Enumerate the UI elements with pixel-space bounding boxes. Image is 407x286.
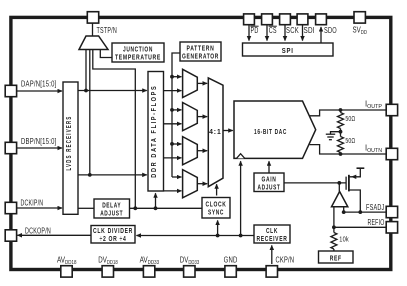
svg-text:TSTP/N: TSTP/N — [97, 26, 118, 35]
svg-text:RECEIVER: RECEIVER — [257, 234, 288, 243]
svg-text:16-BIT DAC: 16-BIT DAC — [254, 127, 287, 136]
svg-text:50Ω: 50Ω — [345, 136, 355, 145]
svg-text:SCK: SCK — [286, 26, 299, 35]
svg-text:4:1: 4:1 — [209, 127, 222, 136]
svg-text:LVDS RECEIVERS: LVDS RECEIVERS — [64, 116, 73, 171]
svg-text:÷2 OR ÷4: ÷2 OR ÷4 — [100, 234, 127, 243]
svg-text:GENERATOR: GENERATOR — [182, 52, 219, 61]
svg-text:SDO: SDO — [324, 26, 337, 35]
svg-text:PD: PD — [251, 26, 259, 35]
svg-text:DAP/N[15:0]: DAP/N[15:0] — [21, 80, 57, 89]
svg-text:FSADJ: FSADJ — [366, 203, 385, 212]
svg-text:SPI: SPI — [282, 46, 294, 55]
svg-text:10k: 10k — [339, 235, 349, 244]
svg-text:SYNC: SYNC — [208, 208, 224, 217]
svg-text:GND: GND — [224, 255, 238, 264]
svg-text:DCKIP/N: DCKIP/N — [21, 198, 44, 207]
svg-text:ADJUST: ADJUST — [100, 209, 123, 218]
svg-text:50Ω: 50Ω — [345, 114, 355, 123]
svg-text:SDI: SDI — [304, 26, 315, 35]
svg-text:DBP/N[15:0]: DBP/N[15:0] — [21, 137, 57, 146]
svg-text:CKP/N: CKP/N — [276, 255, 295, 264]
svg-text:REF: REF — [330, 253, 342, 262]
svg-text:ADJUST: ADJUST — [258, 182, 281, 191]
svg-text:DCKOP/N: DCKOP/N — [25, 226, 51, 235]
svg-text:REFIO: REFIO — [368, 218, 385, 227]
svg-text:TEMPERATURE: TEMPERATURE — [115, 53, 161, 62]
svg-text:DDR DATA FLIP-FLOPS: DDR DATA FLIP-FLOPS — [149, 85, 158, 178]
svg-text:CS: CS — [269, 26, 277, 35]
